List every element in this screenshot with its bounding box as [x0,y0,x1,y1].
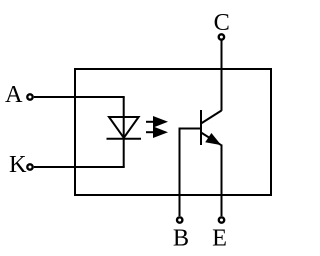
LED cathode bar [107,138,142,140]
LED anode triangle [109,117,139,138]
phototransistor base bar [200,110,202,145]
wire base horizontal [180,128,202,130]
package outline box [75,69,271,195]
svg-text:A: A [5,81,23,108]
wire LED branch vertical [123,97,125,167]
svg-text:C: C [214,9,230,36]
terminal E [219,217,224,222]
wire emitter to terminal E [221,145,223,217]
wire collector to terminal C [221,40,223,111]
light emission arrow upper [146,116,168,128]
wire K to LED cathode branch [34,166,125,168]
emitter arrowhead [205,133,221,145]
terminal C [219,34,224,39]
terminal K [27,164,32,169]
svg-text:E: E [212,224,227,251]
wire A to LED anode branch [34,96,125,98]
wire base vertical to terminal B [179,128,181,217]
terminal B [177,217,182,222]
svg-text:K: K [9,151,27,178]
terminal A [27,94,32,99]
svg-text:B: B [173,224,189,251]
emitter diagonal [201,133,221,146]
light emission arrow lower [146,126,168,138]
collector diagonal [201,111,222,124]
